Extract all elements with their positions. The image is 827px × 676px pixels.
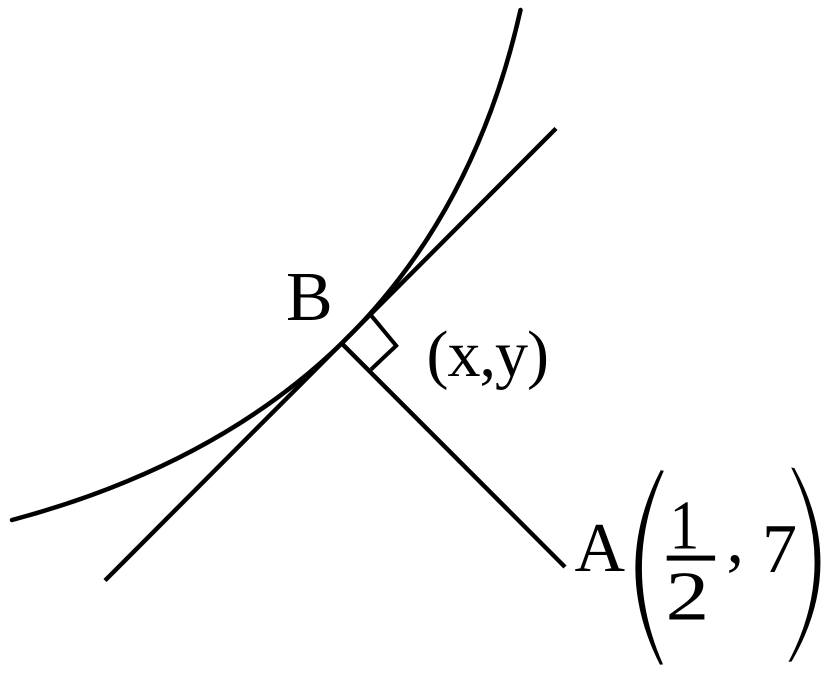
- big right parenthesis: [789, 468, 821, 662]
- svg-text:1: 1: [670, 487, 700, 565]
- svg-text:A: A: [575, 510, 626, 587]
- svg-text:B: B: [286, 259, 333, 336]
- right-angle marker at (x,y): [371, 315, 397, 370]
- svg-text:(x,y): (x,y): [427, 318, 548, 391]
- svg-text:7: 7: [762, 511, 797, 588]
- perpendicular segment from tangent point to A: [343, 345, 565, 567]
- curve (convex curve tangent to line at B): [12, 10, 521, 520]
- big left parenthesis: [635, 470, 663, 665]
- fraction bar: [667, 556, 715, 561]
- svg-text:,: ,: [727, 501, 745, 578]
- tangent line through B: [105, 129, 556, 581]
- svg-text:2: 2: [665, 558, 709, 636]
